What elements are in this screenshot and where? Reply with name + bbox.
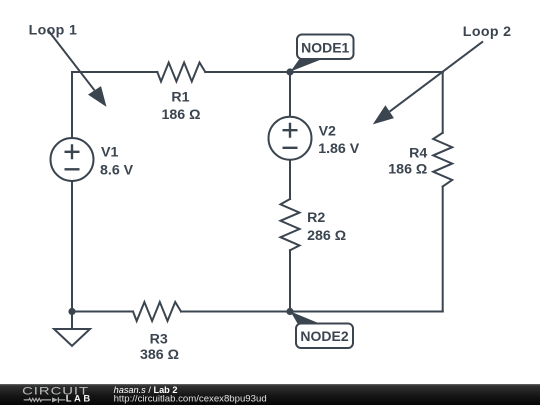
svg-text:NODE1: NODE1 [301, 40, 349, 56]
svg-text:LAB: LAB [66, 392, 93, 403]
svg-text:Loop 1: Loop 1 [29, 22, 78, 38]
svg-text:V1: V1 [101, 145, 118, 161]
svg-text:R3: R3 [150, 332, 168, 348]
svg-text:Loop 2: Loop 2 [463, 24, 512, 40]
svg-text:186 Ω: 186 Ω [162, 107, 201, 123]
svg-text:286 Ω: 286 Ω [307, 228, 346, 244]
svg-text:R2: R2 [307, 210, 325, 226]
svg-text:R1: R1 [171, 89, 189, 105]
svg-text:8.6 V: 8.6 V [100, 162, 134, 178]
svg-text:R4: R4 [409, 146, 427, 162]
svg-text:http://circuitlab.com/cexex8bp: http://circuitlab.com/cexex8bpu93ud [114, 393, 267, 404]
svg-text:V2: V2 [319, 124, 336, 140]
svg-text:386 Ω: 386 Ω [140, 347, 179, 363]
svg-text:NODE2: NODE2 [300, 328, 348, 344]
svg-text:1.86 V: 1.86 V [318, 141, 360, 157]
svg-text:186 Ω: 186 Ω [388, 161, 427, 177]
